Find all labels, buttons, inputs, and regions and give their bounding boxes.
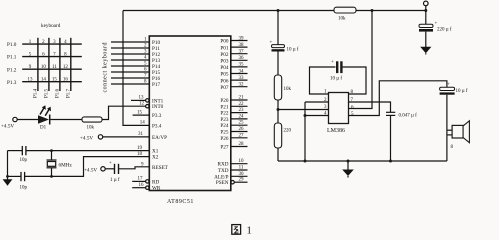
svg-text:19: 19 xyxy=(137,146,143,151)
svg-text:+4.5V: +4.5V xyxy=(80,136,93,142)
svg-text:P00: P00 xyxy=(220,39,228,45)
node +V terminal top right xyxy=(424,1,429,6)
PSEN bubble xyxy=(231,181,234,184)
svg-text:P06: P06 xyxy=(220,78,228,84)
svg-text:14: 14 xyxy=(41,78,47,83)
junction rail/chain xyxy=(277,9,280,12)
svg-text:WR: WR xyxy=(152,186,161,192)
svg-text:P25: P25 xyxy=(220,130,228,136)
svg-text:10p: 10p xyxy=(20,158,28,163)
LED D1 xyxy=(38,115,49,123)
svg-text:RXD: RXD xyxy=(218,162,229,168)
wire divider junction to pin3 xyxy=(278,109,329,111)
ground (crystal) xyxy=(3,179,13,186)
wire chain riser xyxy=(277,11,279,45)
svg-text:38: 38 xyxy=(239,43,245,48)
svg-text:6: 6 xyxy=(351,105,354,110)
junction ground/bottom rail xyxy=(347,160,350,163)
svg-text:PSEN: PSEN xyxy=(216,180,229,186)
MCU left pin labels xyxy=(152,40,169,192)
svg-text:P24: P24 xyxy=(220,123,228,129)
svg-text:LM386: LM386 xyxy=(327,128,345,134)
keyboard row labels P1.0-P1.3 xyxy=(7,42,17,86)
svg-text:P01: P01 xyxy=(220,45,228,51)
wire top +4.5V rail xyxy=(123,10,426,12)
P3.3 stub xyxy=(133,114,150,116)
crystal Y1 6MHz xyxy=(47,151,57,177)
svg-text:+: + xyxy=(109,161,112,166)
svg-text:36: 36 xyxy=(239,56,245,61)
svg-text:P02: P02 xyxy=(220,52,228,58)
wire X1 line xyxy=(8,150,23,152)
svg-text:21: 21 xyxy=(239,96,245,101)
wire reset xyxy=(105,168,114,170)
svg-text:14: 14 xyxy=(140,121,146,126)
wire pin6 to +V rail xyxy=(349,11,373,109)
svg-text:+: + xyxy=(270,41,273,46)
junction pin4/ground riser xyxy=(304,114,307,117)
svg-text:10k: 10k xyxy=(284,87,292,92)
P2 pin numbers 21-28 xyxy=(239,96,245,148)
svg-text:X2: X2 xyxy=(152,155,159,161)
svg-text:25: 25 xyxy=(239,121,245,126)
svg-text:15: 15 xyxy=(137,110,143,115)
svg-text:10: 10 xyxy=(41,65,47,70)
svg-text:15: 15 xyxy=(52,78,58,83)
wire left ground rail xyxy=(7,151,9,180)
speaker xyxy=(452,125,463,138)
wire cap to speaker and rail xyxy=(446,95,448,161)
svg-text:P1.5: P1.5 xyxy=(45,88,50,98)
capacitor 220uF xyxy=(419,24,433,27)
svg-text:P21: P21 xyxy=(220,104,228,110)
INT1 stub xyxy=(131,99,146,101)
wire X2 line xyxy=(25,157,150,177)
wire gain loop pins 1-8 xyxy=(310,67,336,94)
svg-text:23: 23 xyxy=(239,108,245,113)
svg-text:P1.0: P1.0 xyxy=(7,42,17,48)
svg-text:8: 8 xyxy=(451,145,454,150)
svg-text:D1: D1 xyxy=(40,126,47,131)
capacitor 10p (X2) xyxy=(21,172,25,181)
node EA/VP +4.5V terminal xyxy=(98,135,102,139)
MCU right pin labels xyxy=(214,39,229,187)
svg-text:P23: P23 xyxy=(220,117,228,123)
svg-text:+: + xyxy=(447,83,450,88)
resistor 10k (divider) xyxy=(274,75,281,100)
svg-text:10p: 10p xyxy=(20,186,28,191)
node +4.5V terminal (LED) xyxy=(13,117,17,121)
svg-text:27: 27 xyxy=(239,133,245,138)
svg-text:10 µ f: 10 µ f xyxy=(330,77,342,82)
ground (220uF) xyxy=(420,47,431,53)
wire R to INT0 xyxy=(102,106,146,119)
svg-text:+4.5V: +4.5V xyxy=(84,167,97,173)
svg-text:10k: 10k xyxy=(87,126,95,131)
svg-text:+: + xyxy=(435,22,438,27)
svg-text:10 µ f: 10 µ f xyxy=(456,89,468,94)
svg-text:220: 220 xyxy=(284,129,292,134)
wire LED to R (10k) xyxy=(50,119,82,121)
wires: P1 bus stubs from MCU xyxy=(111,42,149,84)
svg-text:P1.7: P1.7 xyxy=(67,88,72,98)
speaker terminal stubs xyxy=(447,129,452,131)
svg-text:17: 17 xyxy=(138,177,144,182)
svg-text:AT89C51: AT89C51 xyxy=(167,199,194,205)
svg-text:+: + xyxy=(331,60,334,65)
wire 10k to 220 xyxy=(277,100,279,123)
junction divider xyxy=(277,108,280,111)
wire bottom ground rail xyxy=(278,160,447,162)
wire top rail riser to P3.4 xyxy=(123,11,149,126)
wire 220 to bottom rail xyxy=(277,148,279,161)
svg-text:RESET: RESET xyxy=(152,165,169,171)
svg-text:28: 28 xyxy=(239,142,245,147)
svg-text:TXD: TXD xyxy=(218,168,229,174)
svg-text:11: 11 xyxy=(52,65,57,70)
junction crystal/X2 xyxy=(50,175,53,178)
capacitor 10uF (gain) xyxy=(336,61,338,73)
svg-text:1: 1 xyxy=(247,226,252,237)
wire 220uF to ground xyxy=(425,32,427,48)
resistor 220 (divider) xyxy=(274,123,281,148)
resistor 10k (top rail series) xyxy=(334,7,356,13)
svg-text:P26: P26 xyxy=(220,136,228,142)
svg-text:18: 18 xyxy=(137,152,143,157)
svg-text:24: 24 xyxy=(239,114,245,119)
svg-text:P1.2: P1.2 xyxy=(7,67,17,73)
svg-text:33: 33 xyxy=(239,76,245,81)
svg-text:P3.4: P3.4 xyxy=(152,123,162,129)
svg-text:22: 22 xyxy=(239,102,245,107)
svg-text:16: 16 xyxy=(63,78,69,83)
wire terminal to 220uF xyxy=(425,11,427,25)
svg-text:39: 39 xyxy=(239,36,245,41)
svg-text:26: 26 xyxy=(239,127,245,132)
svg-text:0.047 µ f: 0.047 µ f xyxy=(399,114,418,119)
svg-text:RD: RD xyxy=(152,179,159,185)
serial stubs RXD TXD ALE PSEN xyxy=(231,164,248,183)
P2 bus stubs right xyxy=(231,100,248,147)
ground (bottom rail) xyxy=(347,161,349,170)
svg-text:13: 13 xyxy=(139,96,145,101)
keyboard key numbers 1-16 xyxy=(28,40,69,83)
op-amp U2 LM386 xyxy=(329,93,349,124)
svg-text:P04: P04 xyxy=(220,65,228,71)
svg-text:1 µ f: 1 µ f xyxy=(110,178,120,183)
svg-text:P05: P05 xyxy=(220,72,228,78)
svg-text:11: 11 xyxy=(239,166,244,171)
MCU U1 AT89C51 xyxy=(149,36,231,191)
junction 0.047 cap/bottom rail xyxy=(389,160,392,163)
svg-text:32: 32 xyxy=(239,83,245,88)
svg-text:P1.4: P1.4 xyxy=(34,88,39,98)
wire pin7 to 0.047 cap xyxy=(349,102,391,112)
svg-text:P1.3: P1.3 xyxy=(7,80,17,86)
caption 图 1 (drawn glyph) xyxy=(232,225,241,235)
P0 pin numbers 39-32 xyxy=(239,36,245,87)
svg-text:EA/VP: EA/VP xyxy=(152,135,167,141)
wire cap to rail xyxy=(390,115,392,161)
resistor 10k (LED series) xyxy=(82,117,102,122)
svg-text:P1.6: P1.6 xyxy=(56,88,61,98)
svg-text:P1.1: P1.1 xyxy=(7,55,17,61)
svg-text:10k: 10k xyxy=(338,17,346,22)
junction left rail xyxy=(6,175,9,178)
junction crystal/X1 xyxy=(50,149,53,152)
wire pin5 output to speaker xyxy=(349,81,447,116)
wire cap to 10k xyxy=(277,52,279,76)
capacitor 0.047uF xyxy=(386,112,395,115)
svg-text:P20: P20 xyxy=(220,98,228,104)
svg-text:12: 12 xyxy=(63,65,69,70)
svg-text:P27: P27 xyxy=(220,145,228,151)
capacitor 10uF (output coupling) xyxy=(440,87,455,90)
svg-text:P3.3: P3.3 xyxy=(152,113,162,119)
svg-text:P17: P17 xyxy=(152,82,160,88)
wire terminal to LED xyxy=(17,119,38,121)
junction rail/pin6 riser xyxy=(371,9,374,12)
svg-text:P07: P07 xyxy=(220,85,228,91)
INT0 bubble xyxy=(146,105,149,108)
P0 bus stubs right xyxy=(231,41,248,87)
svg-text:keyboard: keyboard xyxy=(41,23,61,29)
junction rail/terminal xyxy=(424,9,427,12)
svg-text:+4.5V: +4.5V xyxy=(1,124,14,130)
svg-text:16: 16 xyxy=(139,183,145,188)
svg-text:INT0: INT0 xyxy=(152,104,164,110)
capacitor 1uF (reset) xyxy=(115,164,119,174)
svg-text:29: 29 xyxy=(239,178,245,183)
junction ground riser/bottom rail xyxy=(304,160,307,163)
wire EA/VP xyxy=(103,136,150,138)
keyboard matrix grid xyxy=(22,38,82,91)
svg-text:connect keyboard: connect keyboard xyxy=(103,42,109,92)
WR stub xyxy=(132,187,145,189)
svg-text:30: 30 xyxy=(239,172,245,177)
LM386 pin numbers xyxy=(324,90,327,117)
node +4.5V terminal (reset) xyxy=(101,167,105,171)
svg-text:220 µ f: 220 µ f xyxy=(437,28,452,33)
svg-text:37: 37 xyxy=(239,50,245,55)
wire pin4 to ground riser xyxy=(305,115,329,117)
svg-text:13: 13 xyxy=(28,78,34,83)
svg-text:35: 35 xyxy=(239,63,245,68)
svg-text:6MHz: 6MHz xyxy=(59,163,73,169)
capacitor 10uF (input coupling) xyxy=(272,45,285,48)
svg-text:P03: P03 xyxy=(220,59,228,65)
capacitor 10p (X1) xyxy=(22,146,26,155)
svg-text:10: 10 xyxy=(239,159,245,164)
keyboard column labels P1.4-P1.7 (rotated) xyxy=(34,88,72,98)
svg-text:34: 34 xyxy=(239,69,245,74)
RD stub xyxy=(132,180,145,182)
svg-text:31: 31 xyxy=(138,132,144,137)
svg-text:P22: P22 xyxy=(220,111,228,117)
svg-text:12: 12 xyxy=(139,102,145,107)
svg-text:10 µ f: 10 µ f xyxy=(287,48,299,53)
P1 pin numbers 1-8 xyxy=(144,38,147,85)
wire pin2 to ground riser xyxy=(305,101,329,103)
